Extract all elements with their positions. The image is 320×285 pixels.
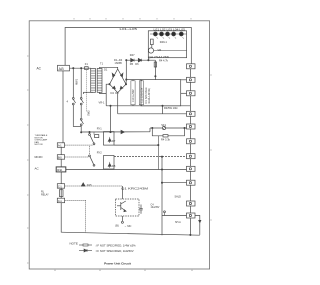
- svg-text:Power Unit Circuit: Power Unit Circuit: [104, 262, 131, 266]
- wire aux trunk: [161, 157, 163, 236]
- connector B-1: [57, 155, 64, 160]
- wire switch join: [72, 126, 74, 127]
- svg-text:D7: D7: [112, 139, 116, 143]
- wire AC neutral: [66, 169, 187, 171]
- svg-text:→ MC: → MC: [124, 224, 131, 228]
- svg-text:R47: R47: [130, 53, 135, 57]
- wire IC1 top feed: [155, 76, 156, 77]
- svg-text:L01~L05: L01~L05: [120, 27, 138, 31]
- wire mech link dotted: [85, 71, 87, 113]
- diode D7: [121, 130, 124, 133]
- transformer T1 primary: [91, 69, 96, 93]
- wire LED row: [150, 33, 187, 35]
- note resistor symbol: [79, 244, 92, 246]
- resistor R49: [151, 39, 154, 45]
- connector tab 11 SH-A: [187, 213, 196, 218]
- relay contact RY1: [89, 132, 91, 134]
- wire bridge bottom drop: [117, 93, 119, 114]
- wire relay feed 2: [65, 156, 89, 158]
- svg-text:C12 220u/25V: C12 220u/25V: [141, 87, 144, 103]
- wire rail to D7 bus: [110, 106, 112, 132]
- wire lower mid bus: [81, 131, 150, 133]
- svg-text:RELAY: RELAY: [41, 193, 49, 196]
- svg-text:MW1: MW1: [75, 78, 79, 85]
- wire secondary bottom: [100, 92, 107, 93]
- svg-text:R49-1: R49-1: [160, 40, 168, 44]
- svg-text:: IF NOT SPECIFIED, 1/4W ±5%: : IF NOT SPECIFIED, 1/4W ±5%: [95, 243, 136, 247]
- diode D15: [81, 183, 85, 186]
- connector tab 6: [187, 139, 196, 144]
- wire tab9 stub: [162, 182, 187, 184]
- svg-text:VR-1: VR-1: [99, 101, 105, 105]
- wire D6 to IC1: [154, 60, 156, 79]
- svg-text:SH-A: SH-A: [175, 221, 181, 224]
- transformer T1 secondary: [97, 69, 102, 93]
- capacitor C10: [131, 80, 135, 106]
- relay contact RY2: [89, 155, 91, 157]
- wire tab3 stub: [181, 92, 187, 94]
- resistor R4/5W drop: [162, 106, 164, 114]
- wire secondary to bridge: [100, 67, 118, 69]
- LED L05: [179, 32, 183, 36]
- wire RY1 link: [89, 146, 91, 155]
- wire tab11 stub: [162, 215, 187, 217]
- svg-text:RY2: RY2: [97, 150, 103, 154]
- interlock switch SW2: [80, 98, 82, 100]
- bridge rectifier D1-D4: [110, 69, 127, 93]
- connector tab 7: [187, 154, 196, 159]
- node b test point: [164, 211, 166, 213]
- fuse F1: [85, 67, 89, 70]
- tick marks frame: [27, 18, 211, 271]
- LED L03: [166, 32, 170, 36]
- svg-text:D5 D6: D5 D6: [130, 62, 139, 66]
- wire tab2 stub: [181, 79, 187, 81]
- resistor R4 4.7k body: [154, 62, 156, 67]
- right column trunk: [189, 69, 191, 78]
- connector tab 8: [187, 166, 196, 171]
- wire AC live: [70, 67, 92, 69]
- svg-text:SF1: SF1: [161, 123, 166, 127]
- svg-text:R4 3.3k: R4 3.3k: [161, 138, 171, 142]
- wire branch down: [157, 136, 159, 170]
- svg-text:R4/5W 10Ω: R4/5W 10Ω: [164, 106, 178, 110]
- diode D6: [138, 59, 141, 62]
- svg-text:D15: D15: [87, 183, 92, 187]
- wire switch drop 2: [80, 68, 82, 97]
- svg-text:SW2: SW2: [86, 110, 90, 116]
- wire bridge left to lower rail: [106, 84, 109, 106]
- connector CN-B: [56, 167, 66, 172]
- wire switch drop 1: [72, 68, 74, 97]
- relay coil RY2: [104, 156, 115, 170]
- note diode symbol: [79, 249, 92, 252]
- svg-text:Q1 KRC243M: Q1 KRC243M: [121, 186, 148, 190]
- fuse holder box: [95, 135, 99, 138]
- wire left trunk: [62, 71, 64, 143]
- wire DC top rail: [126, 79, 141, 81]
- capacitor C4: [140, 205, 142, 209]
- wire DC lower rail: [106, 105, 190, 107]
- diode D5: [126, 59, 155, 61]
- interlock switch SW1: [72, 98, 74, 100]
- svg-text:C10 1u/50V: C10 1u/50V: [132, 89, 135, 102]
- wire micro signal 2: [65, 199, 86, 201]
- transistor Q1 symbol: [120, 202, 122, 210]
- wire rail -18V: [118, 113, 187, 115]
- connector tab 1: [187, 64, 196, 69]
- LED panel box: [148, 31, 186, 58]
- svg-text:D1: D1: [104, 68, 108, 72]
- thermal fuse SF-1: [149, 128, 151, 132]
- wire bottom bus: [61, 232, 200, 235]
- LED L01: [153, 32, 157, 36]
- connector tab 4: [187, 111, 196, 116]
- connector tab 10: [187, 201, 196, 206]
- svg-text:(B): (B): [115, 224, 119, 228]
- border frame: [29, 21, 209, 269]
- connector C-1: [57, 184, 64, 189]
- wire SF-1 out: [166, 127, 187, 129]
- svg-text:SHLD: SHLD: [175, 196, 182, 199]
- transistor Q4: [148, 48, 153, 53]
- svg-text:NOTE: NOTE: [70, 242, 78, 246]
- connector tab 9: [187, 180, 196, 185]
- svg-text:: IF NOT SPECIFIED, 1kΩ/50V: : IF NOT SPECIFIED, 1kΩ/50V: [95, 249, 134, 253]
- svg-text:AC: AC: [37, 67, 42, 71]
- transistor Q1 driver dashed box: [116, 199, 140, 216]
- svg-text:MOTOR: MOTOR: [35, 144, 44, 146]
- svg-text:REGULATOR): REGULATOR): [148, 88, 151, 104]
- relay coil RY1: [104, 132, 115, 146]
- svg-text:10u/35V: 10u/35V: [151, 206, 160, 209]
- connector tab 2: [187, 77, 196, 82]
- connector tab 5: [187, 124, 196, 129]
- wire rectified feed: [125, 60, 127, 79]
- wire coil to driver: [114, 144, 158, 146]
- capacitor C12: [139, 80, 143, 106]
- wire top bus: [65, 28, 191, 66]
- svg-text:D4 D3: D4 D3: [111, 91, 120, 95]
- connector C-2: [57, 198, 64, 203]
- wire to Q4: [147, 58, 149, 61]
- resistor R4 3.3k bypass: [152, 128, 163, 136]
- svg-text:D8: D8: [112, 164, 116, 168]
- note block: [70, 242, 137, 253]
- wire SH-A out: [195, 216, 200, 235]
- wire primary bottom: [83, 91, 93, 93]
- LED L02: [160, 32, 164, 36]
- connector A-1: [57, 143, 64, 148]
- connector tab 3: [187, 91, 196, 96]
- svg-text:L01 L02 L03 L04 L05: L01 L02 L03 L04 L05: [154, 29, 186, 32]
- IC1 voltage regulator box: [141, 80, 181, 106]
- svg-text:CNA: CNA: [57, 168, 62, 172]
- wire bridge right to top rail: [125, 80, 127, 85]
- connector CN-A (AC input): [58, 65, 70, 71]
- wire Q1 emitter to B: [121, 216, 123, 221]
- wire relay feed 1: [65, 144, 93, 146]
- svg-text:RY1: RY1: [97, 127, 103, 131]
- svg-text:MICRO: MICRO: [35, 156, 43, 159]
- svg-text:VR: VR: [158, 48, 162, 52]
- wire micro signal 1: [65, 185, 123, 187]
- svg-text:1S05B: 1S05B: [115, 62, 123, 65]
- interlock switch SW3: [80, 118, 82, 120]
- relay coil RL: [59, 190, 63, 197]
- LED L04: [172, 32, 176, 36]
- svg-text:R4 4.7k: R4 4.7k: [159, 58, 169, 62]
